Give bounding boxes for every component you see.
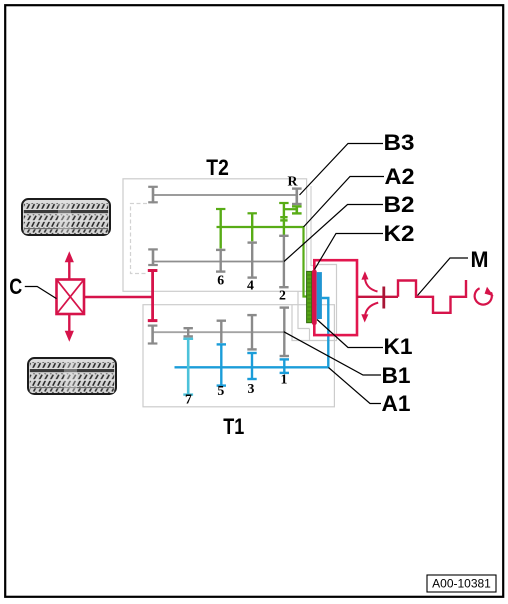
gear pair 4 bbox=[248, 213, 257, 277]
svg-text:3: 3 bbox=[248, 381, 255, 396]
svg-text:4: 4 bbox=[247, 278, 254, 293]
leader M bbox=[418, 258, 469, 296]
clutch K2 disc (green) bbox=[307, 271, 312, 322]
drawing number box bbox=[427, 575, 496, 592]
svg-text:T1: T1 bbox=[223, 414, 244, 439]
leader K2 bbox=[315, 234, 384, 270]
T1 shaft left gear bbox=[148, 326, 158, 345]
clutch input disc (red) bbox=[312, 270, 317, 325]
svg-text:R: R bbox=[288, 174, 299, 189]
torque arrow lower bbox=[361, 303, 378, 323]
rotation symbol bbox=[475, 287, 494, 305]
housing link T2 right to drum top bbox=[311, 186, 318, 266]
T2 upper shaft left gear bbox=[148, 187, 158, 204]
leader A1 bbox=[329, 368, 382, 404]
leader K1 bbox=[317, 320, 383, 348]
arrow to upper wheel bbox=[65, 251, 74, 279]
T2 left housing link bbox=[131, 204, 148, 274]
leader B3 bbox=[300, 144, 384, 196]
T2 upper gray shaft bbox=[153, 194, 297, 196]
svg-text:K1: K1 bbox=[384, 334, 413, 359]
leader A2 bbox=[304, 177, 385, 228]
svg-text:6: 6 bbox=[217, 273, 224, 288]
leader B2 bbox=[284, 205, 383, 262]
clutch K1 disc (blue) bbox=[317, 272, 322, 319]
svg-text:7: 7 bbox=[185, 392, 192, 407]
clutch drum outline bbox=[310, 265, 337, 341]
reverse gear R link bbox=[284, 208, 297, 210]
T2 lower gray shaft bbox=[153, 261, 284, 263]
clutch housing box (red) bbox=[314, 260, 357, 335]
final drive link bbox=[84, 296, 153, 298]
torque arrow upper bbox=[361, 271, 377, 291]
housing link T1 top to drum bottom bbox=[292, 305, 310, 341]
gear pair 5 bbox=[217, 321, 226, 386]
svg-text:A1: A1 bbox=[382, 391, 411, 416]
gear pair 2 with synchro bbox=[279, 203, 288, 287]
crankshaft symbol bbox=[398, 280, 466, 313]
gear pair 6 bbox=[216, 209, 225, 272]
svg-text:C: C bbox=[9, 274, 22, 299]
svg-text:5: 5 bbox=[217, 383, 224, 398]
T1 gray shaft bbox=[153, 331, 284, 333]
svg-text:2: 2 bbox=[279, 288, 286, 303]
svg-text:B2: B2 bbox=[384, 192, 415, 217]
gear pair 7 bbox=[183, 328, 193, 394]
arrow to lower wheel bbox=[65, 314, 74, 342]
gear pair 3 bbox=[247, 315, 256, 379]
svg-text:M: M bbox=[471, 247, 489, 272]
svg-text:1: 1 bbox=[281, 371, 288, 386]
gearbox T2 housing box bbox=[123, 179, 307, 291]
main drive gear (red) bbox=[148, 269, 158, 321]
housing link T2 bottom to clutch drum bbox=[298, 291, 310, 328]
svg-text:T2: T2 bbox=[206, 155, 229, 180]
green input shaft 2 bbox=[217, 227, 307, 297]
wheel (front, lower) bbox=[28, 358, 116, 394]
wheel (front, upper) bbox=[22, 199, 110, 235]
T2 lower shaft left gear bbox=[148, 249, 158, 266]
gear pair 1 bbox=[280, 308, 289, 373]
reverse gear R gray bar bbox=[292, 189, 302, 204]
flywheel crossbar bbox=[382, 287, 385, 309]
differential C symbol bbox=[57, 280, 85, 315]
blue input shaft 1 bbox=[175, 298, 329, 367]
leader B1 bbox=[284, 332, 381, 375]
reverse gear R green bar bbox=[292, 206, 302, 213]
svg-text:B1: B1 bbox=[382, 363, 411, 388]
svg-text:A2: A2 bbox=[385, 164, 415, 189]
engine output line bbox=[357, 296, 398, 298]
svg-text:B3: B3 bbox=[384, 130, 415, 155]
gearbox T1 housing box bbox=[143, 305, 334, 407]
svg-text:A00-10381: A00-10381 bbox=[432, 577, 491, 591]
leader C bbox=[25, 287, 57, 299]
svg-text:K2: K2 bbox=[384, 221, 415, 246]
